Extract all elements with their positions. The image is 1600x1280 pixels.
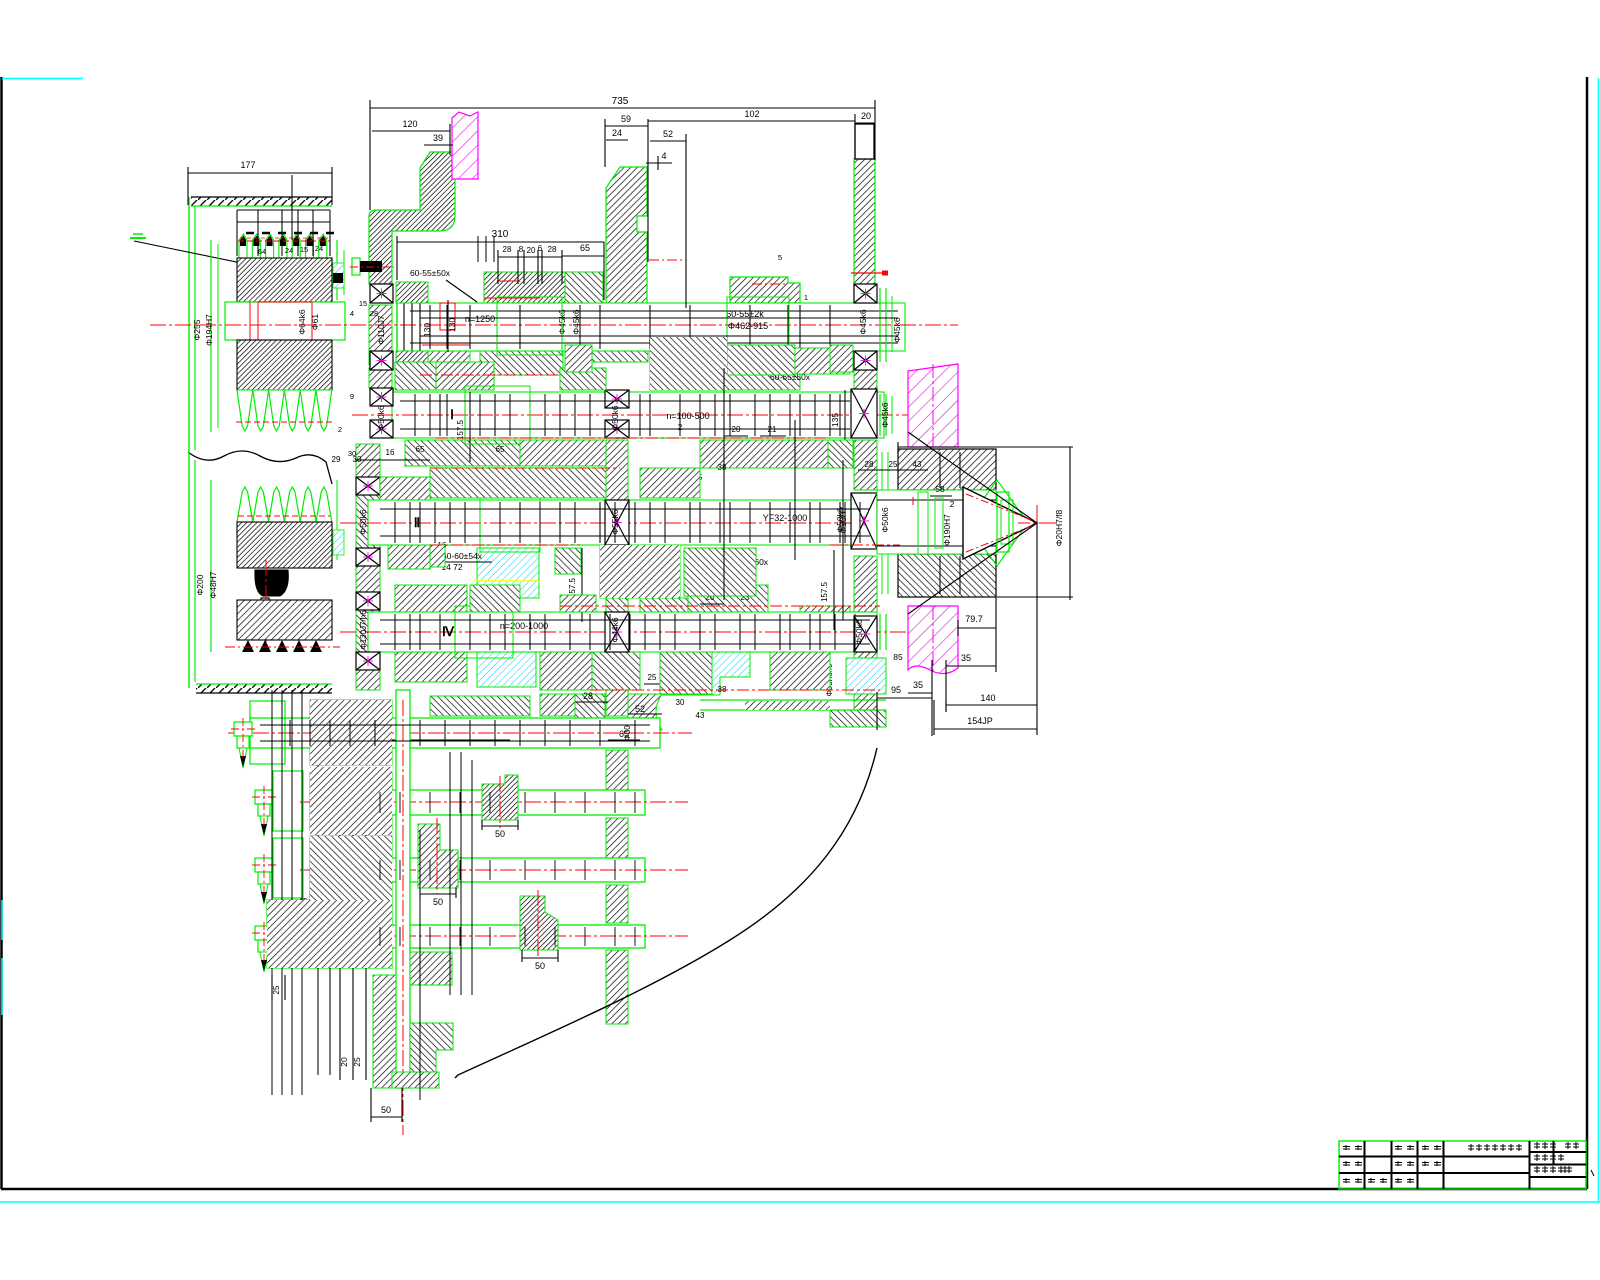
grease bolt left wall xyxy=(352,258,360,275)
shaft VI centerline xyxy=(300,869,688,871)
green collar at quill right xyxy=(997,492,1009,552)
mid wall segment c xyxy=(606,545,628,612)
svg-text:30: 30 xyxy=(676,698,685,707)
svg-text:n=100-500: n=100-500 xyxy=(666,411,709,421)
spindle left step xyxy=(396,303,398,351)
pulley lower hub hatch 2 xyxy=(237,600,332,640)
svg-text:2: 2 xyxy=(338,425,342,434)
svg-text:Φ200: Φ200 xyxy=(195,574,205,595)
bottom wall block d large xyxy=(267,900,392,968)
dim 50 shaft V xyxy=(482,825,518,827)
shaft I right end green lines xyxy=(879,394,881,436)
svg-text:52: 52 xyxy=(635,704,645,714)
left wall segment below shaft I xyxy=(356,444,380,477)
housing top-mid column xyxy=(606,167,647,305)
gear on shaft VI red axis xyxy=(436,818,438,894)
svg-text:1: 1 xyxy=(804,293,808,302)
red pitch line gear above II xyxy=(912,497,914,505)
gear below shaft II cyan xyxy=(477,652,536,687)
gear below shaft II mid xyxy=(592,652,640,690)
top-right cap block xyxy=(855,124,874,159)
dim 50 shaft VII xyxy=(522,957,558,959)
dim 50 bottom xyxy=(371,1116,402,1118)
bearing shaft I left lower xyxy=(370,420,393,438)
svg-text:8: 8 xyxy=(519,245,524,254)
svg-text:50: 50 xyxy=(495,829,505,839)
fixing bolt left 1 xyxy=(234,722,252,736)
misc vertical dim line top pulley xyxy=(291,175,293,240)
shaft VII centerline xyxy=(300,935,688,937)
svg-text:79.7: 79.7 xyxy=(965,614,983,624)
svg-text:Φ30: Φ30 xyxy=(623,725,632,741)
spindle step lines xyxy=(429,305,431,349)
green lines wall to quill xyxy=(881,452,883,594)
gear below shaft III mid2 xyxy=(540,652,592,690)
svg-text:64: 64 xyxy=(258,247,266,256)
vertical shaft body xyxy=(396,690,410,1088)
coupling above shaft IV xyxy=(660,652,712,694)
svg-text:20: 20 xyxy=(339,1057,349,1067)
svg-text:43: 43 xyxy=(913,460,922,469)
dim 25 left xyxy=(271,975,273,1000)
spindle shaft body xyxy=(397,303,905,351)
right wall bottom flange xyxy=(830,710,886,727)
pulley dim stack verticals xyxy=(236,210,238,256)
gear above shaft III right xyxy=(800,606,850,632)
svg-text:Φ462-915: Φ462-915 xyxy=(728,321,768,331)
vertical shaft bottom flange xyxy=(392,1072,439,1088)
shaft II centerline xyxy=(340,522,1058,524)
gear on shaft V xyxy=(482,775,518,820)
svg-text:YF32-1000: YF32-1000 xyxy=(763,513,808,523)
boss at shaft IV mid wall right xyxy=(628,694,662,730)
small shaft VI steps xyxy=(379,860,381,880)
svg-text:28: 28 xyxy=(370,309,378,318)
centre cone xyxy=(963,487,1037,559)
dim 154 xyxy=(934,728,1037,730)
gear below shaft III right xyxy=(770,652,830,690)
svg-text:Φ44k6: Φ44k6 xyxy=(610,617,620,642)
cyan seal pulley lower right xyxy=(333,530,344,555)
svg-text:2: 2 xyxy=(950,499,955,509)
dim 28 52 lines xyxy=(575,701,608,703)
red pitch line below shaft III xyxy=(590,689,880,691)
right wall segment low xyxy=(854,556,877,616)
misc extension line spindle left xyxy=(355,459,430,461)
gear below shaft III left xyxy=(395,652,467,682)
spindle collar green left xyxy=(497,297,562,355)
svg-text:20: 20 xyxy=(527,246,536,255)
bearing shaft III right xyxy=(854,616,877,652)
left wall segment shaft III zone xyxy=(356,610,380,652)
svg-text:Φ130J7/h6: Φ130J7/h6 xyxy=(359,610,368,650)
gear above shaft I left xyxy=(436,362,494,390)
gear on shaft VI xyxy=(418,824,458,888)
centre cone red phantom edges xyxy=(966,494,1034,521)
gear above shaft III right of wall xyxy=(640,598,688,612)
shaft V centerline xyxy=(300,801,688,803)
shaft VI body xyxy=(360,858,645,882)
svg-text:35: 35 xyxy=(961,653,971,663)
gear block on spindle left xyxy=(484,272,600,303)
boss at shaft IV mid wall xyxy=(575,694,605,728)
svg-text:Ⅳ: Ⅳ xyxy=(442,624,455,639)
dim bracket quill top xyxy=(898,446,1073,448)
spindle right end green lines xyxy=(879,288,881,362)
svg-text:20: 20 xyxy=(861,111,871,121)
spindle locknut bottom xyxy=(396,351,428,372)
bearing shaft I mid upper xyxy=(605,390,629,408)
gear below shaft I left xyxy=(405,440,520,466)
svg-text:30: 30 xyxy=(348,449,356,458)
svg-text:25: 25 xyxy=(352,1057,362,1067)
gear above shaft III small xyxy=(560,595,596,612)
svg-text:25: 25 xyxy=(272,985,281,994)
change gear magenta lower centerline xyxy=(932,606,934,674)
spacer below shaft II left wall xyxy=(388,545,430,569)
sheet border right xyxy=(1586,77,1589,1189)
margin cyan dashes left xyxy=(1,900,3,940)
dim 77 4 xyxy=(520,479,562,481)
bottom cluster dim verticals right xyxy=(419,830,421,1100)
svg-text:35: 35 xyxy=(913,680,923,690)
shaft IV body xyxy=(250,718,660,748)
pulley lower teeth red line xyxy=(238,515,330,517)
bearing quill lower xyxy=(905,554,932,590)
gear on shaft VII xyxy=(520,896,558,950)
svg-text:38: 38 xyxy=(718,463,727,472)
svg-text:9: 9 xyxy=(350,392,354,401)
svg-text:50: 50 xyxy=(433,897,443,907)
title block right sub-grid xyxy=(1530,1151,1587,1153)
left wall segment between II xyxy=(356,495,380,548)
fixing bolt left 3 xyxy=(255,858,273,872)
gear above shaft I right xyxy=(700,368,800,390)
svg-text:60-55±2k: 60-55±2k xyxy=(726,309,764,319)
crosshatch overlay gear above II xyxy=(600,545,680,598)
svg-text:50: 50 xyxy=(381,1105,391,1115)
pulley lower groove teeth xyxy=(237,487,253,522)
svg-text:Ⅱ: Ⅱ xyxy=(414,515,420,530)
centre sleeve green diamond xyxy=(966,480,1028,566)
svg-text:65: 65 xyxy=(496,445,505,454)
dim verticals spindle left group xyxy=(477,236,479,262)
svg-text:15: 15 xyxy=(359,299,367,308)
dim 310 xyxy=(397,241,604,243)
svg-text:130: 130 xyxy=(422,323,432,337)
housing top-right column xyxy=(854,159,875,305)
svg-text:16: 16 xyxy=(386,448,395,457)
shaft IV inner lines xyxy=(260,724,650,726)
dim 24 column xyxy=(606,139,628,141)
svg-text:4: 4 xyxy=(350,309,354,318)
svg-text:38: 38 xyxy=(718,685,727,694)
shaft IV centerline xyxy=(228,732,692,734)
mid wall segment h xyxy=(606,950,628,1024)
red pitch line gear spindle left xyxy=(484,297,540,299)
svg-text:Φ45k6: Φ45k6 xyxy=(892,317,902,342)
shaft I step lines xyxy=(439,394,441,436)
gear on shaft V red axis xyxy=(499,776,501,828)
vertical shaft upper right hatch xyxy=(410,952,452,985)
gear above shaft III mid2 xyxy=(470,585,520,612)
pulley lower cap red axis xyxy=(265,560,267,650)
svg-text:n=1250: n=1250 xyxy=(465,314,495,324)
crosshatch overlay bottom block d xyxy=(267,900,392,968)
spacer above shaft I middle xyxy=(560,368,606,390)
svg-text:Φ48H7: Φ48H7 xyxy=(208,571,218,598)
seal right wall cyan xyxy=(846,658,886,694)
bearing shaft I right xyxy=(851,389,877,438)
svg-text:28: 28 xyxy=(583,691,593,701)
svg-text:65: 65 xyxy=(580,243,590,253)
bearing shaft I left upper xyxy=(370,388,393,406)
belt pulley magenta top-left xyxy=(452,112,478,179)
red pitch line below shaft I xyxy=(436,437,830,439)
svg-text:177: 177 xyxy=(240,160,255,170)
red pitch line above shaft II xyxy=(430,467,620,469)
shaft V body xyxy=(360,790,645,815)
dim 177 pulley cover xyxy=(188,172,332,174)
gear under spindle large xyxy=(650,337,727,390)
svg-text:15: 15 xyxy=(300,245,308,254)
right wall segment mid xyxy=(854,440,877,490)
svg-text:59: 59 xyxy=(621,114,631,124)
pulley upper bore xyxy=(225,302,345,340)
pulley upper hub hatch bottom xyxy=(237,340,332,390)
left wall segment below II xyxy=(356,566,380,592)
shaft I collar green xyxy=(465,386,530,444)
pulley upper teeth red line xyxy=(238,240,330,242)
svg-text:Φ20H7/f8: Φ20H7/f8 xyxy=(1054,509,1064,546)
svg-text:Φ194H7: Φ194H7 xyxy=(204,314,214,346)
dim bracket quill bottom xyxy=(997,596,1073,598)
spacer below spindle a xyxy=(565,345,592,372)
leader technical note xyxy=(134,241,305,276)
red pitch marks below spindle xyxy=(422,344,470,346)
svg-text:28: 28 xyxy=(503,245,512,254)
svg-text:25: 25 xyxy=(889,460,898,469)
change gear magenta lower xyxy=(908,606,958,674)
shaft IV step lines xyxy=(289,720,291,746)
svg-text:60-55±50x: 60-55±50x xyxy=(410,268,451,278)
gear below shaft I mid2 xyxy=(520,440,606,466)
svg-text:39: 39 xyxy=(433,133,443,143)
dim 20 25 vertical lines xyxy=(339,830,341,1080)
gear above shaft II right2 xyxy=(684,548,756,596)
svg-text:154JP: 154JP xyxy=(967,716,993,726)
pitch line yellow xyxy=(474,580,540,582)
gear above spindle mid2 xyxy=(565,272,603,303)
dim 65 spindle xyxy=(562,255,604,257)
margin line cyan right xyxy=(1598,78,1600,1202)
bottom cluster dim verticals xyxy=(271,690,273,1095)
margin line cyan bottom xyxy=(0,1201,1600,1203)
break line housing bottom S-curve xyxy=(455,748,877,1078)
gear below shaft I right xyxy=(700,440,828,468)
spindle nose black verticals xyxy=(403,296,405,358)
svg-text:4: 4 xyxy=(661,151,666,161)
svg-text:25: 25 xyxy=(648,673,657,682)
title block outer frame xyxy=(1339,1141,1586,1189)
shaft III extra steps xyxy=(394,614,396,650)
gear above shaft III left xyxy=(395,585,467,612)
cover left wall green xyxy=(188,197,190,455)
left wall upper segment xyxy=(369,305,392,365)
spindle extra bore lines xyxy=(420,317,898,319)
spindle collar green right xyxy=(727,297,789,355)
fixing bolt left 2 xyxy=(255,790,273,804)
bracket above shaft IV xyxy=(430,696,530,716)
fixing bolt left 4 xyxy=(255,926,273,940)
bearing shaft I mid lower xyxy=(605,420,629,438)
dim 120 xyxy=(372,130,450,132)
dim 140 xyxy=(946,704,1037,706)
svg-text:140: 140 xyxy=(980,693,995,703)
svg-text:Φ61: Φ61 xyxy=(310,314,320,331)
svg-text:28: 28 xyxy=(548,245,557,254)
mid wall segment d xyxy=(606,652,628,716)
bearing right wall quill level xyxy=(851,493,877,549)
cover left wall lower xyxy=(188,455,190,688)
pulley lower bottom red line xyxy=(225,646,340,648)
housing bottom rim green lines xyxy=(700,699,886,701)
svg-text:20: 20 xyxy=(732,425,741,434)
pulley upper rim red line xyxy=(236,421,332,423)
quill bore xyxy=(877,490,996,554)
tiny red dashes teeth row xyxy=(240,237,328,239)
quill body lower xyxy=(898,554,996,597)
gear below spindle left pair xyxy=(408,341,470,366)
vertical shaft right hatch block xyxy=(410,1023,453,1081)
gear below shaft I right of wall xyxy=(640,468,700,498)
shaft I inner lines xyxy=(400,400,850,402)
long dim vertical x843 xyxy=(842,460,844,620)
spacer below shaft I right wall xyxy=(828,440,853,468)
change gear magenta upper xyxy=(908,364,958,447)
shaft IV dim 92 xyxy=(352,739,510,741)
cover bottom edge tick hatch xyxy=(196,684,332,693)
shaft II extra steps xyxy=(394,502,396,543)
svg-text:Φ45k6: Φ45k6 xyxy=(858,309,868,334)
spacer above shaft I far left xyxy=(395,362,436,390)
mid wall segment a xyxy=(606,305,628,337)
dim 59 xyxy=(605,125,648,127)
gear above shaft II mid xyxy=(600,545,680,598)
pulley dim stack line2 xyxy=(237,221,330,223)
gear above shaft III mid xyxy=(688,585,768,612)
margin line cyan top-left xyxy=(2,78,83,80)
dim 65 quill xyxy=(1039,447,1041,523)
housing top-left wall xyxy=(369,152,455,284)
pulley lower teeth row bottom xyxy=(242,640,254,652)
long dim vertical x724 xyxy=(723,368,725,600)
svg-text:6: 6 xyxy=(538,244,543,253)
svg-text:157.5: 157.5 xyxy=(456,419,465,440)
shaft V left housing xyxy=(273,771,303,831)
bearing shaft III mid xyxy=(605,612,629,652)
centre tip cross xyxy=(1036,505,1038,541)
svg-text:24: 24 xyxy=(612,128,622,138)
small shaft VII steps xyxy=(379,927,381,946)
vertical shaft left hatch band xyxy=(373,975,396,1088)
leader note green text xyxy=(130,237,146,239)
mid wall segment b xyxy=(606,440,628,500)
bearing spindle left bottom xyxy=(370,351,393,370)
tiny marks above teeth row xyxy=(246,232,254,235)
gear cluster below shaft I wide xyxy=(430,468,606,498)
bottom cluster dim verticals x450 xyxy=(449,752,451,995)
gear below spindle far right xyxy=(795,348,850,374)
shaft III body xyxy=(368,612,877,652)
bearing shaft III left lower xyxy=(356,652,380,670)
shaft III right end green lines xyxy=(879,614,881,650)
bearing shaft III left upper xyxy=(356,592,380,610)
dim dia20H7 vertical xyxy=(1069,447,1071,600)
mid wall segment f xyxy=(606,818,628,858)
svg-text:50: 50 xyxy=(535,961,545,971)
shaft III centerline xyxy=(340,631,938,633)
bottom wall block c xyxy=(310,836,392,900)
dim 102 xyxy=(648,120,855,122)
sheet border left xyxy=(0,77,3,1189)
right wall segment lower xyxy=(854,652,877,710)
pulley lower green verticals xyxy=(210,480,212,652)
gear below shaft II cyan right xyxy=(661,652,750,695)
spindle centerline xyxy=(150,324,958,326)
shaft VI left housing xyxy=(273,838,303,898)
svg-text:65: 65 xyxy=(416,445,425,454)
dim 20 right xyxy=(855,122,875,124)
shaft IV left bearing box xyxy=(250,701,285,764)
shaft II inner lines xyxy=(380,508,870,510)
red mark right wall top xyxy=(851,272,888,274)
svg-text:29: 29 xyxy=(332,455,341,464)
shaft III collar green xyxy=(455,606,513,658)
small shaft V steps xyxy=(379,792,381,813)
bearing shaft II left upper xyxy=(356,477,380,495)
dim 39 xyxy=(424,144,453,146)
dim 52 column xyxy=(650,140,686,142)
gear on shaft VII red axis xyxy=(537,890,539,958)
svg-text:Φ255: Φ255 xyxy=(192,319,202,340)
shaft I body xyxy=(392,392,884,438)
gear below spindle right xyxy=(727,345,795,375)
shaft I centerline xyxy=(352,414,940,416)
svg-text:102: 102 xyxy=(744,109,759,119)
break line upper cover xyxy=(188,451,332,484)
svg-text:157.5: 157.5 xyxy=(820,581,829,602)
vertical shaft centerline xyxy=(402,700,404,1135)
svg-text:Φ50k6: Φ50k6 xyxy=(358,509,368,534)
bottom wall block a xyxy=(310,700,392,765)
title block cell text xyxy=(1343,1146,1350,1148)
mid wall segment g xyxy=(606,885,628,923)
dim 79.7 xyxy=(958,627,996,629)
dim row 28 8 20 6 28 xyxy=(498,256,562,258)
black seal block pulley right xyxy=(333,273,343,283)
svg-text:60-60±54x: 60-60±54x xyxy=(442,551,483,561)
spacer below shaft II far left xyxy=(400,545,445,567)
pulley cover inner green verticals xyxy=(210,240,212,432)
crosshatch overlay big gear spindle xyxy=(650,337,727,390)
long dim vertical x795 xyxy=(794,420,796,560)
svg-text:95: 95 xyxy=(891,685,901,695)
spacer above shaft II left xyxy=(380,477,430,500)
bush above shaft II cyan xyxy=(477,548,539,612)
shaft II step lines xyxy=(419,502,421,543)
shaft II body xyxy=(368,500,877,545)
